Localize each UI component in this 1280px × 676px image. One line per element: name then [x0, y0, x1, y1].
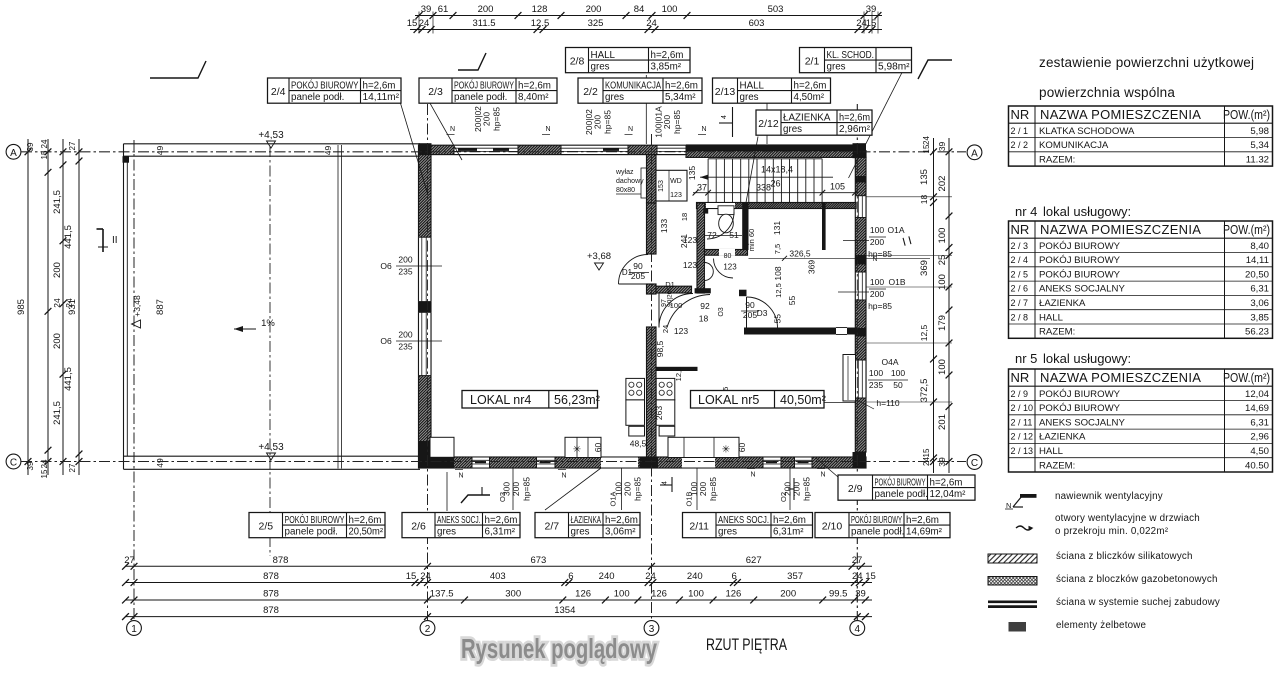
svg-text:205: 205 — [743, 310, 757, 320]
svg-text:II: II — [112, 235, 118, 246]
svg-text:72: 72 — [707, 230, 717, 240]
svg-text:403: 403 — [490, 571, 506, 582]
svg-text:39: 39 — [855, 589, 866, 600]
svg-text:POW.(m²): POW.(m²) — [1223, 370, 1270, 385]
svg-text:N: N — [750, 472, 755, 479]
svg-text:gres: gres — [591, 62, 610, 73]
svg-text:Rysunek poglądowy: Rysunek poglądowy — [461, 633, 658, 664]
svg-text:6,31m²: 6,31m² — [773, 527, 804, 538]
svg-text:6,31: 6,31 — [1250, 417, 1269, 428]
svg-text:200: 200 — [482, 112, 492, 126]
svg-text:878: 878 — [263, 605, 279, 616]
svg-text:18: 18 — [699, 314, 709, 324]
svg-text:1: 1 — [131, 624, 137, 635]
svg-text:100: 100 — [869, 368, 883, 378]
svg-text:325: 325 — [588, 18, 604, 29]
svg-text:24: 24 — [52, 298, 62, 308]
svg-text:KOMUNIKACJA: KOMUNIKACJA — [1039, 140, 1109, 151]
svg-text:12,5: 12,5 — [774, 283, 783, 298]
svg-text:panele podł.: panele podł. — [454, 92, 507, 103]
svg-text:gres: gres — [827, 62, 846, 73]
svg-text:hp=85: hp=85 — [802, 477, 812, 501]
svg-text:A: A — [971, 148, 978, 159]
svg-text:24: 24 — [420, 571, 431, 582]
svg-text:2 / 12: 2 / 12 — [1011, 432, 1034, 442]
svg-text:135: 135 — [919, 169, 930, 185]
svg-text:LOKAL nr4: LOKAL nr4 — [470, 393, 531, 407]
svg-text:98,5: 98,5 — [655, 340, 665, 357]
svg-text:gres: gres — [437, 527, 456, 538]
svg-text:49: 49 — [323, 146, 333, 156]
svg-text:ściana z bliczków silikatowych: ściana z bliczków silikatowych — [1056, 551, 1193, 562]
svg-text:gres: gres — [740, 92, 759, 103]
svg-text:NR: NR — [1011, 107, 1030, 122]
svg-text:o przekroju min. 0,022m²: o przekroju min. 0,022m² — [1055, 526, 1169, 537]
svg-text:2 / 1: 2 / 1 — [1011, 126, 1029, 136]
svg-text:panele podł.: panele podł. — [291, 92, 344, 103]
svg-text:KLATKA SCHODOWA: KLATKA SCHODOWA — [1039, 126, 1135, 137]
svg-text:2,96m²: 2,96m² — [839, 124, 871, 135]
svg-text:C: C — [971, 458, 978, 469]
svg-text:200: 200 — [593, 115, 603, 129]
svg-text:lokal usługowy:: lokal usługowy: — [1043, 351, 1131, 366]
svg-text:15: 15 — [407, 18, 418, 29]
svg-text:128: 128 — [532, 4, 548, 15]
svg-text:O1A: O1A — [609, 491, 618, 506]
svg-text:60: 60 — [737, 443, 747, 453]
svg-text:POKÓJ BIUROWY: POKÓJ BIUROWY — [1039, 389, 1121, 400]
svg-text:O1A: O1A — [887, 225, 904, 235]
svg-text:5,98: 5,98 — [1250, 126, 1269, 137]
svg-text:3,85m²: 3,85m² — [651, 62, 682, 73]
svg-text:200: 200 — [870, 237, 884, 247]
svg-text:4,50: 4,50 — [1250, 446, 1269, 457]
svg-text:NR: NR — [1011, 370, 1030, 385]
svg-text:RAZEM:: RAZEM: — [1039, 327, 1075, 338]
svg-text:5,98m²: 5,98m² — [878, 62, 910, 73]
svg-text:panele podł.: panele podł. — [285, 527, 338, 538]
svg-text:39: 39 — [26, 142, 35, 151]
svg-text:nr 5: nr 5 — [1015, 351, 1037, 366]
svg-text:O3: O3 — [718, 307, 725, 316]
svg-text:+4,53: +4,53 — [258, 442, 284, 453]
svg-text:200: 200 — [662, 115, 672, 129]
svg-text:+4,53: +4,53 — [258, 130, 284, 141]
svg-text:hp=85: hp=85 — [708, 477, 718, 501]
svg-text:40,50m²: 40,50m² — [780, 393, 826, 407]
svg-text:39: 39 — [421, 4, 432, 15]
svg-text:24: 24 — [645, 571, 656, 582]
svg-text:nr 4: nr 4 — [1015, 204, 1037, 219]
svg-text:✳: ✳ — [722, 445, 730, 456]
svg-text:powierzchnia wspólna: powierzchnia wspólna — [1039, 85, 1175, 100]
svg-text:12,5: 12,5 — [919, 324, 929, 341]
svg-text:POW.(m²): POW.(m²) — [1223, 222, 1270, 237]
svg-text:673: 673 — [530, 555, 546, 566]
svg-text:HALL: HALL — [1039, 312, 1064, 323]
svg-text:2/11: 2/11 — [689, 520, 709, 532]
svg-text:25: 25 — [937, 255, 948, 266]
svg-text:4: 4 — [662, 481, 669, 485]
svg-text:ŁAZIENKA: ŁAZIENKA — [1039, 432, 1086, 443]
svg-text:5,34m²: 5,34m² — [665, 92, 696, 103]
svg-text:hp=85: hp=85 — [603, 110, 613, 134]
svg-text:39: 39 — [937, 142, 947, 152]
svg-text:55: 55 — [773, 314, 783, 324]
svg-text:48,5: 48,5 — [630, 439, 647, 449]
svg-text:KL. SCHOD.: KL. SCHOD. — [827, 50, 875, 61]
svg-text:2 / 10: 2 / 10 — [1011, 403, 1034, 413]
svg-text:235: 235 — [398, 342, 412, 352]
svg-text:24: 24 — [419, 18, 430, 29]
svg-text:123: 123 — [683, 235, 697, 245]
svg-text:ŁAZIENKA: ŁAZIENKA — [1039, 298, 1086, 309]
svg-text:357: 357 — [787, 571, 803, 582]
svg-text:15: 15 — [406, 571, 417, 582]
svg-text:N: N — [701, 126, 706, 133]
svg-text:+3,68: +3,68 — [587, 251, 611, 262]
svg-text:441,5: 441,5 — [63, 367, 74, 391]
svg-text:200: 200 — [52, 262, 63, 278]
svg-text:201: 201 — [937, 414, 948, 430]
svg-text:N: N — [561, 473, 566, 480]
svg-text:N: N — [873, 256, 878, 263]
svg-text:24: 24 — [646, 18, 657, 29]
svg-text:N: N — [458, 473, 463, 480]
svg-text:24: 24 — [40, 139, 49, 148]
svg-text:39: 39 — [866, 4, 877, 15]
svg-text:hp=85: hp=85 — [868, 301, 892, 311]
svg-text:LOKAL nr5: LOKAL nr5 — [698, 393, 759, 407]
svg-text:ANEKS SOCJ.: ANEKS SOCJ. — [437, 515, 481, 526]
svg-text:240: 240 — [687, 571, 703, 582]
svg-text:HALL: HALL — [591, 50, 616, 61]
svg-text:200: 200 — [698, 482, 708, 496]
svg-text:✳: ✳ — [573, 445, 581, 456]
svg-text:hp=85: hp=85 — [522, 477, 532, 501]
svg-text:202: 202 — [937, 176, 948, 192]
svg-text:55: 55 — [787, 296, 797, 306]
svg-text:39: 39 — [26, 461, 35, 470]
svg-text:49: 49 — [155, 458, 165, 468]
svg-text:97: 97 — [661, 299, 668, 307]
svg-text:311.5: 311.5 — [472, 18, 495, 29]
svg-text:263: 263 — [654, 406, 664, 420]
svg-text:POKÓJ BIUROWY: POKÓJ BIUROWY — [875, 477, 926, 488]
svg-text:N: N — [820, 472, 825, 479]
svg-text:24: 24 — [40, 459, 49, 468]
svg-text:200: 200 — [52, 333, 63, 349]
svg-text:15: 15 — [922, 448, 931, 457]
svg-text:h=2,6m: h=2,6m — [518, 80, 551, 91]
svg-text:6,31: 6,31 — [1250, 284, 1269, 295]
svg-text:18: 18 — [919, 195, 929, 205]
svg-text:200: 200 — [398, 255, 412, 265]
svg-text:2/5: 2/5 — [258, 520, 273, 532]
svg-text:O1B: O1B — [685, 491, 694, 506]
svg-text:235: 235 — [398, 267, 412, 277]
svg-text:RZUT PIĘTRA: RZUT PIĘTRA — [706, 636, 787, 654]
svg-text:wyłaz: wyłaz — [615, 169, 634, 176]
svg-text:123: 123 — [674, 326, 688, 336]
svg-text:NR: NR — [1011, 222, 1030, 237]
svg-text:12,04m²: 12,04m² — [930, 489, 967, 500]
svg-text:126: 126 — [725, 589, 741, 600]
svg-text:100: 100 — [937, 274, 948, 290]
svg-text:1%: 1% — [261, 318, 275, 329]
svg-text:20,50m²: 20,50m² — [349, 527, 384, 538]
svg-text:100: 100 — [937, 228, 948, 244]
svg-text:503: 503 — [768, 4, 784, 15]
svg-text:369: 369 — [807, 260, 817, 274]
svg-text:123: 123 — [670, 192, 682, 199]
svg-text:241,5: 241,5 — [52, 190, 63, 214]
svg-text:2 / 13: 2 / 13 — [1011, 446, 1034, 456]
svg-text:RAZEM:: RAZEM: — [1039, 154, 1075, 165]
svg-text:100: 100 — [614, 589, 630, 600]
svg-text:ANEKS SOCJ.: ANEKS SOCJ. — [718, 515, 769, 526]
svg-text:153: 153 — [658, 180, 665, 192]
svg-text:2/10: 2/10 — [822, 520, 843, 532]
svg-text:otwory wentylacyjne w drzwiach: otwory wentylacyjne w drzwiach — [1055, 513, 1200, 524]
svg-text:133: 133 — [659, 219, 669, 233]
svg-text:2/1: 2/1 — [805, 55, 820, 67]
svg-text:27: 27 — [68, 463, 77, 472]
svg-text:12,5: 12,5 — [674, 367, 683, 382]
svg-text:372,5: 372,5 — [919, 379, 930, 403]
svg-text:985: 985 — [16, 299, 27, 315]
svg-text:POKÓJ BIUROWY: POKÓJ BIUROWY — [285, 515, 345, 526]
svg-text:panele podł.: panele podł. — [875, 489, 928, 500]
svg-text:50: 50 — [893, 380, 903, 390]
svg-text:326,5: 326,5 — [789, 249, 811, 259]
svg-text:gres: gres — [783, 124, 802, 135]
svg-text:lokal usługowy:: lokal usługowy: — [1043, 204, 1131, 219]
svg-text:2 / 11: 2 / 11 — [1011, 417, 1033, 427]
svg-text:6: 6 — [732, 571, 737, 582]
svg-text:15: 15 — [40, 469, 49, 478]
svg-text:56,23m²: 56,23m² — [554, 393, 600, 407]
svg-text:O2: O2 — [779, 492, 788, 502]
svg-text:878: 878 — [263, 571, 279, 582]
svg-text:O6: O6 — [380, 336, 392, 346]
svg-text:20,50: 20,50 — [1245, 269, 1269, 280]
svg-text:14,11m²: 14,11m² — [363, 92, 400, 103]
svg-text:200: 200 — [398, 330, 412, 340]
svg-text:2/6: 2/6 — [411, 520, 426, 532]
svg-text:123: 123 — [683, 260, 697, 270]
svg-text:2 / 3: 2 / 3 — [1011, 241, 1029, 251]
svg-text:h=2,6m: h=2,6m — [605, 515, 638, 526]
svg-text:887: 887 — [155, 299, 166, 315]
svg-text:12,04: 12,04 — [1245, 389, 1270, 400]
svg-text:NAZWA POMIESZCZENIA: NAZWA POMIESZCZENIA — [1040, 370, 1201, 385]
svg-text:100: 100 — [870, 225, 884, 235]
svg-text:14,69m²: 14,69m² — [906, 527, 943, 538]
svg-text:gres: gres — [571, 527, 590, 538]
svg-text:O6: O6 — [380, 261, 392, 271]
svg-text:WD: WD — [670, 178, 682, 185]
svg-text:ANEKS SOCJALNY: ANEKS SOCJALNY — [1039, 284, 1125, 295]
svg-text:HALL: HALL — [1039, 446, 1064, 457]
svg-text:126: 126 — [651, 589, 667, 600]
svg-text:POKÓJ BIUROWY: POKÓJ BIUROWY — [851, 515, 902, 526]
svg-text:137.5: 137.5 — [430, 589, 454, 600]
svg-text:2 / 8: 2 / 8 — [1011, 312, 1029, 322]
svg-text:panele podł.: panele podł. — [851, 527, 904, 538]
svg-text:338: 338 — [756, 183, 771, 193]
svg-text:80: 80 — [724, 253, 732, 260]
svg-text:2/13: 2/13 — [715, 86, 736, 98]
svg-text:8,40m²: 8,40m² — [518, 92, 549, 103]
svg-text:D1: D1 — [665, 280, 675, 289]
svg-text:KOMUNIKACJA: KOMUNIKACJA — [605, 80, 661, 91]
svg-text:2: 2 — [425, 624, 431, 635]
svg-text:603: 603 — [749, 18, 765, 29]
svg-text:878: 878 — [263, 589, 279, 600]
svg-text:100: 100 — [891, 368, 905, 378]
svg-text:POKÓJ BIUROWY: POKÓJ BIUROWY — [291, 80, 359, 91]
svg-text:627: 627 — [746, 555, 762, 566]
svg-text:40.50: 40.50 — [1245, 460, 1269, 471]
svg-text:h=110: h=110 — [876, 398, 900, 408]
svg-text:105: 105 — [830, 182, 845, 192]
svg-text:POKÓJ BIUROWY: POKÓJ BIUROWY — [1039, 269, 1121, 280]
svg-text:h=2,6m: h=2,6m — [651, 50, 684, 61]
svg-text:12.5: 12.5 — [531, 18, 550, 29]
svg-text:200: 200 — [780, 589, 796, 600]
svg-text:2 / 4: 2 / 4 — [1011, 255, 1029, 265]
svg-text:dachowy: dachowy — [616, 178, 644, 185]
svg-text:24: 24 — [661, 325, 670, 333]
svg-text:2 / 6: 2 / 6 — [1011, 284, 1029, 294]
svg-text:POKÓJ BIUROWY: POKÓJ BIUROWY — [1039, 403, 1121, 414]
svg-text:2 / 5: 2 / 5 — [1011, 269, 1029, 279]
svg-text:200: 200 — [478, 4, 494, 15]
svg-text:h=2,6m: h=2,6m — [485, 515, 518, 526]
svg-text:N: N — [545, 126, 550, 133]
svg-text:200: 200 — [586, 4, 602, 15]
svg-text:100: 100 — [688, 589, 704, 600]
svg-text:ŁAZIENKA: ŁAZIENKA — [783, 112, 831, 123]
svg-text:h=2,6m: h=2,6m — [363, 80, 396, 91]
svg-text:N: N — [628, 126, 633, 133]
svg-text:gres: gres — [718, 527, 737, 538]
svg-text:7,5: 7,5 — [773, 244, 782, 254]
svg-text:5,34: 5,34 — [1250, 140, 1269, 151]
svg-text:49: 49 — [155, 146, 165, 156]
svg-text:878: 878 — [273, 555, 289, 566]
svg-text:ŁAZIENKA: ŁAZIENKA — [571, 515, 602, 526]
svg-text:RAZEM:: RAZEM: — [1039, 460, 1075, 471]
svg-text:4,50m²: 4,50m² — [794, 92, 825, 103]
svg-text:2 / 7: 2 / 7 — [1011, 298, 1029, 308]
svg-text:179: 179 — [937, 315, 948, 331]
svg-text:108: 108 — [773, 266, 783, 280]
svg-text:2/9: 2/9 — [848, 483, 863, 495]
svg-text:h=2,6m: h=2,6m — [349, 515, 382, 526]
svg-text:POKÓJ BIUROWY: POKÓJ BIUROWY — [1039, 255, 1121, 266]
svg-text:POW.(m²): POW.(m²) — [1223, 107, 1270, 122]
svg-text:15: 15 — [865, 571, 876, 582]
svg-text:h=2,6m: h=2,6m — [773, 515, 806, 526]
svg-text:D3: D3 — [757, 308, 768, 318]
svg-text:2/3: 2/3 — [428, 86, 443, 98]
svg-text:ściana z bloczków gazobetonowy: ściana z bloczków gazobetonowych — [1056, 574, 1218, 585]
svg-text:hp=85: hp=85 — [633, 477, 643, 501]
svg-text:h=2,6m: h=2,6m — [839, 112, 870, 123]
svg-text:2/2: 2/2 — [583, 86, 598, 98]
svg-text:126: 126 — [575, 589, 591, 600]
svg-text:100: 100 — [670, 301, 683, 310]
svg-text:POKÓJ BIUROWY: POKÓJ BIUROWY — [454, 80, 514, 91]
svg-text:235: 235 — [869, 380, 883, 390]
svg-text:37: 37 — [697, 183, 707, 193]
svg-text:200: 200 — [511, 482, 521, 496]
svg-text:2 / 9: 2 / 9 — [1011, 389, 1029, 399]
svg-text:90: 90 — [745, 300, 755, 310]
svg-text:4: 4 — [721, 115, 728, 119]
svg-text:min 60: min 60 — [747, 229, 756, 252]
svg-text:441,5: 441,5 — [63, 225, 74, 249]
svg-text:90: 90 — [633, 261, 643, 271]
svg-text:200: 200 — [623, 482, 633, 496]
svg-text:h=2,6m: h=2,6m — [794, 80, 827, 91]
svg-text:3,85: 3,85 — [1250, 312, 1269, 323]
svg-text:369: 369 — [919, 260, 930, 276]
svg-text:nawiewnik wentylacyjny: nawiewnik wentylacyjny — [1055, 491, 1163, 502]
svg-text:+3,48: +3,48 — [132, 295, 142, 317]
svg-text:200: 200 — [870, 289, 884, 299]
svg-text:11.32: 11.32 — [1246, 154, 1269, 165]
svg-text:hp=85: hp=85 — [672, 110, 682, 134]
svg-text:27: 27 — [124, 555, 135, 566]
svg-text:100: 100 — [937, 359, 948, 375]
svg-text:18: 18 — [680, 213, 689, 221]
svg-text:1354: 1354 — [554, 605, 575, 616]
svg-text:elementy żelbetowe: elementy żelbetowe — [1056, 620, 1147, 631]
svg-text:HALL: HALL — [740, 80, 765, 91]
svg-text:3,06: 3,06 — [1250, 298, 1269, 309]
svg-text:300: 300 — [505, 589, 521, 600]
svg-text:2,96: 2,96 — [1250, 432, 1269, 443]
svg-text:61: 61 — [438, 4, 449, 15]
svg-text:2/4: 2/4 — [271, 86, 286, 98]
svg-text:3,06m²: 3,06m² — [605, 527, 636, 538]
svg-text:2 / 2: 2 / 2 — [1011, 140, 1029, 150]
svg-text:24: 24 — [64, 298, 74, 308]
svg-text:99.5: 99.5 — [829, 589, 848, 600]
svg-text:hp=85: hp=85 — [492, 107, 502, 131]
svg-text:2/8: 2/8 — [570, 55, 585, 67]
svg-text:2/7: 2/7 — [544, 520, 559, 532]
svg-text:84: 84 — [634, 4, 645, 15]
svg-text:92: 92 — [700, 301, 710, 311]
svg-text:6,31m²: 6,31m² — [485, 527, 516, 538]
svg-text:14,11: 14,11 — [1246, 255, 1269, 266]
svg-text:2/12: 2/12 — [758, 118, 779, 130]
svg-text:zestawienie powierzchni użytko: zestawienie powierzchni użytkowej — [1039, 55, 1254, 70]
svg-text:80x80: 80x80 — [616, 187, 635, 194]
svg-text:N: N — [450, 126, 455, 133]
svg-text:24: 24 — [922, 136, 931, 145]
svg-text:240: 240 — [599, 571, 615, 582]
svg-text:O4A: O4A — [881, 357, 898, 367]
svg-text:POKÓJ BIUROWY: POKÓJ BIUROWY — [1039, 241, 1121, 252]
svg-text:100: 100 — [662, 4, 678, 15]
svg-text:A: A — [10, 148, 17, 159]
svg-text:h=2,6m: h=2,6m — [665, 80, 698, 91]
